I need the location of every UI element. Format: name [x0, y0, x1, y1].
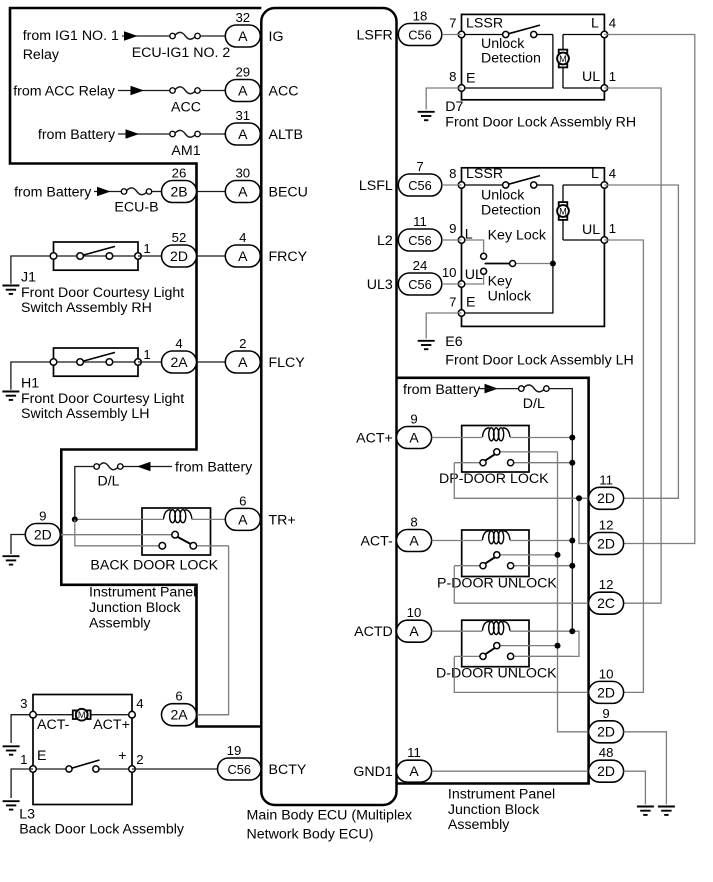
svg-text:Instrument Panel: Instrument Panel: [448, 787, 555, 803]
svg-text:10: 10: [599, 666, 614, 681]
svg-text:Front Door Courtesy Light: Front Door Courtesy Light: [21, 285, 184, 301]
svg-text:from Battery: from Battery: [175, 459, 253, 475]
svg-text:19: 19: [227, 743, 242, 758]
svg-text:A: A: [238, 28, 248, 44]
svg-text:11: 11: [413, 214, 427, 229]
svg-text:7: 7: [416, 159, 423, 174]
svg-text:J1: J1: [21, 269, 36, 285]
svg-text:Assembly: Assembly: [89, 615, 151, 631]
svg-text:7: 7: [449, 294, 456, 309]
svg-text:2D: 2D: [34, 526, 52, 542]
svg-text:Front Door Lock Assembly LH: Front Door Lock Assembly LH: [445, 353, 633, 369]
svg-text:ACC: ACC: [171, 100, 201, 116]
svg-text:4: 4: [609, 166, 616, 181]
svg-text:A: A: [238, 511, 248, 527]
svg-text:ACC: ACC: [269, 84, 299, 100]
svg-text:2D: 2D: [170, 248, 188, 264]
svg-text:from Battery: from Battery: [38, 127, 116, 143]
svg-text:L2: L2: [377, 233, 393, 249]
svg-text:1: 1: [609, 221, 616, 236]
svg-text:29: 29: [235, 65, 250, 80]
svg-text:A: A: [238, 82, 248, 98]
svg-text:from ACC Relay: from ACC Relay: [13, 83, 116, 99]
svg-text:from IG1 NO. 1: from IG1 NO. 1: [23, 28, 119, 44]
svg-text:Junction Block: Junction Block: [89, 600, 181, 616]
svg-text:E6: E6: [445, 334, 462, 350]
svg-text:2B: 2B: [170, 183, 187, 199]
svg-text:ECU-B: ECU-B: [114, 199, 158, 215]
svg-text:Unlock: Unlock: [481, 187, 525, 203]
svg-text:ACT-: ACT-: [360, 534, 393, 550]
svg-text:12: 12: [599, 577, 614, 592]
svg-text:4: 4: [175, 336, 182, 351]
svg-text:ACT+: ACT+: [356, 431, 393, 447]
svg-text:3: 3: [20, 696, 27, 711]
svg-text:4: 4: [239, 230, 246, 245]
svg-text:BECU: BECU: [269, 185, 308, 201]
svg-text:DP-DOOR LOCK: DP-DOOR LOCK: [439, 471, 549, 487]
svg-text:C56: C56: [408, 233, 431, 248]
svg-text:2D: 2D: [597, 763, 615, 779]
svg-text:+: +: [118, 748, 126, 764]
svg-text:9: 9: [410, 412, 417, 427]
svg-text:D/L: D/L: [97, 473, 119, 489]
svg-text:E: E: [466, 294, 475, 310]
svg-text:D7: D7: [445, 99, 463, 115]
svg-text:LSSR: LSSR: [466, 166, 503, 182]
svg-text:Front Door Courtesy Light: Front Door Courtesy Light: [21, 391, 184, 407]
svg-text:Back Door Lock Assembly: Back Door Lock Assembly: [19, 822, 185, 838]
svg-text:LSFR: LSFR: [357, 28, 393, 44]
svg-text:31: 31: [235, 108, 250, 123]
svg-text:2D: 2D: [597, 490, 615, 506]
svg-text:TR+: TR+: [269, 512, 296, 528]
svg-text:FLCY: FLCY: [269, 355, 306, 371]
svg-text:BCTY: BCTY: [269, 762, 307, 778]
svg-text:M: M: [78, 710, 86, 720]
svg-text:LSSR: LSSR: [466, 16, 503, 32]
svg-text:A: A: [238, 183, 248, 199]
svg-text:LSFL: LSFL: [359, 178, 393, 194]
svg-text:Switch Assembly LH: Switch Assembly LH: [21, 406, 150, 422]
svg-text:L: L: [591, 166, 599, 182]
svg-text:E: E: [37, 748, 46, 764]
svg-text:Key Lock: Key Lock: [488, 227, 547, 243]
svg-text:from Battery: from Battery: [14, 184, 92, 200]
svg-text:A: A: [238, 126, 248, 142]
svg-text:C56: C56: [408, 27, 431, 42]
svg-text:32: 32: [235, 10, 250, 25]
svg-text:6: 6: [239, 493, 246, 508]
svg-text:Switch Assembly RH: Switch Assembly RH: [21, 300, 152, 316]
svg-text:Front Door Lock Assembly RH: Front Door Lock Assembly RH: [445, 115, 636, 131]
svg-text:Main Body ECU (Multiplex: Main Body ECU (Multiplex: [247, 808, 413, 824]
svg-text:IG: IG: [269, 29, 284, 45]
svg-text:A: A: [409, 429, 419, 445]
svg-text:2A: 2A: [170, 707, 188, 723]
svg-text:ACTD: ACTD: [354, 624, 393, 640]
svg-text:H1: H1: [21, 375, 39, 391]
svg-text:Unlock: Unlock: [488, 289, 532, 305]
svg-text:UL3: UL3: [367, 277, 393, 293]
svg-text:30: 30: [235, 166, 250, 181]
svg-text:FRCY: FRCY: [269, 249, 308, 265]
svg-text:2A: 2A: [170, 354, 188, 370]
svg-text:P-DOOR UNLOCK: P-DOOR UNLOCK: [437, 575, 557, 591]
svg-text:8: 8: [449, 69, 456, 84]
svg-text:UL: UL: [465, 267, 483, 283]
svg-text:6: 6: [175, 689, 182, 704]
svg-text:GND1: GND1: [353, 764, 393, 780]
svg-text:4: 4: [136, 696, 143, 711]
svg-text:A: A: [238, 354, 248, 370]
svg-text:ACT+: ACT+: [93, 717, 130, 733]
svg-text:2: 2: [136, 752, 143, 767]
svg-text:Relay: Relay: [23, 47, 60, 63]
svg-text:9: 9: [39, 508, 46, 523]
svg-text:C56: C56: [408, 277, 431, 292]
svg-text:10: 10: [407, 605, 422, 620]
svg-text:24: 24: [413, 258, 428, 273]
svg-text:AM1: AM1: [171, 143, 200, 159]
svg-text:1: 1: [143, 241, 150, 256]
svg-text:E: E: [466, 71, 475, 87]
svg-text:D/L: D/L: [523, 396, 545, 412]
svg-text:2D: 2D: [597, 684, 615, 700]
svg-text:2: 2: [239, 336, 246, 351]
svg-text:M: M: [559, 206, 567, 216]
svg-text:UL: UL: [582, 69, 600, 85]
svg-text:18: 18: [413, 9, 428, 24]
svg-text:2D: 2D: [597, 724, 615, 740]
svg-text:Unlock: Unlock: [481, 36, 525, 52]
svg-text:A: A: [409, 763, 419, 779]
svg-text:8: 8: [449, 166, 456, 181]
svg-text:C56: C56: [228, 762, 251, 777]
svg-text:4: 4: [609, 16, 616, 31]
svg-text:52: 52: [172, 230, 187, 245]
svg-text:L3: L3: [19, 806, 35, 822]
svg-text:2C: 2C: [597, 595, 615, 611]
svg-text:10: 10: [442, 265, 457, 280]
svg-text:Instrument Panel: Instrument Panel: [89, 585, 196, 601]
svg-text:Detection: Detection: [481, 51, 541, 67]
svg-text:C56: C56: [408, 178, 431, 193]
svg-text:A: A: [409, 532, 419, 548]
svg-text:Network Body ECU): Network Body ECU): [247, 827, 374, 843]
svg-text:BACK DOOR LOCK: BACK DOOR LOCK: [90, 558, 218, 574]
svg-text:26: 26: [172, 166, 187, 181]
svg-text:ACT-: ACT-: [37, 717, 70, 733]
svg-text:Assembly: Assembly: [448, 817, 510, 833]
svg-text:UL: UL: [582, 222, 600, 238]
svg-text:2D: 2D: [597, 535, 615, 551]
svg-text:7: 7: [449, 16, 456, 31]
svg-text:48: 48: [599, 745, 614, 760]
svg-text:L: L: [591, 16, 599, 32]
svg-text:ALTB: ALTB: [269, 127, 303, 143]
svg-text:Detection: Detection: [481, 203, 541, 219]
svg-text:Key: Key: [488, 273, 513, 289]
svg-text:M: M: [559, 54, 567, 64]
svg-text:8: 8: [410, 515, 417, 530]
svg-text:9: 9: [602, 706, 609, 721]
svg-text:1: 1: [609, 69, 616, 84]
svg-text:11: 11: [407, 745, 421, 760]
svg-text:A: A: [409, 623, 419, 639]
svg-text:1: 1: [20, 752, 27, 767]
svg-text:ECU-IG1 NO. 2: ECU-IG1 NO. 2: [132, 45, 231, 61]
svg-text:Junction Block: Junction Block: [448, 802, 540, 818]
svg-text:12: 12: [599, 518, 614, 533]
svg-text:9: 9: [449, 221, 456, 236]
svg-text:A: A: [238, 248, 248, 264]
svg-text:from Battery: from Battery: [403, 382, 481, 398]
svg-text:11: 11: [599, 472, 613, 487]
svg-text:1: 1: [143, 347, 150, 362]
